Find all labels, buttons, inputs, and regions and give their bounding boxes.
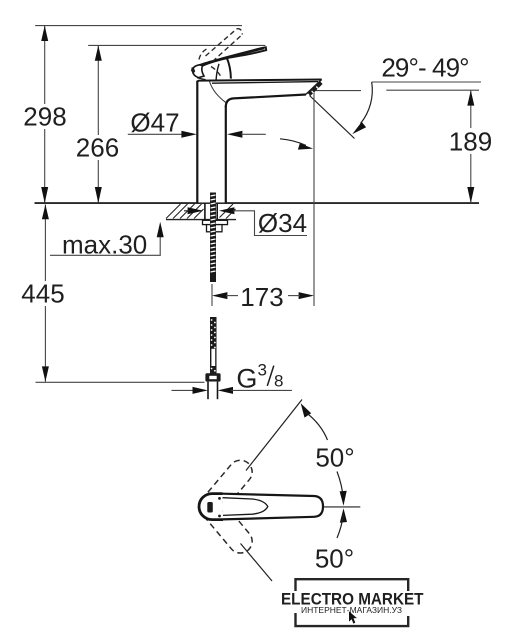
svg-text:173: 173 <box>240 282 283 312</box>
dimension 266 line <box>97 45 99 135</box>
svg-text:29°- 49°: 29°- 49° <box>381 53 468 83</box>
hose middle white slot <box>211 349 215 366</box>
svg-text:Ø47: Ø47 <box>130 107 179 137</box>
angle arc from label to stream line <box>361 82 373 124</box>
spout end face <box>306 80 322 95</box>
logo box bottom <box>296 613 409 626</box>
upper arc piece 2 with arrow at centerline <box>337 472 343 501</box>
threaded rod <box>210 193 216 283</box>
faucet body column <box>197 81 226 203</box>
dashed handle position upper <box>194 455 257 524</box>
189 top extension line <box>386 89 479 91</box>
locknut <box>207 225 223 232</box>
dashed handle position lower <box>194 489 257 558</box>
173 left extension line <box>211 284 213 306</box>
dimension 266 arrow up <box>95 45 102 60</box>
G3/8 dimension arrows <box>172 389 196 391</box>
svg-text:189: 189 <box>449 126 492 156</box>
dimension 189 line <box>470 90 472 128</box>
dimension 173 <box>212 292 227 299</box>
mouse cursor <box>349 611 357 623</box>
dimension 189 arrow up <box>467 90 474 105</box>
extension line top (298 to dashed handle tip) <box>35 25 242 27</box>
svg-text:Ø34: Ø34 <box>258 208 307 238</box>
svg-text:266: 266 <box>76 133 119 163</box>
max.30 riser <box>159 236 161 255</box>
shank tube edges <box>204 203 206 220</box>
aerator outlet reference line <box>315 90 361 92</box>
upper arc arrowhead at ray <box>301 403 312 417</box>
inner contour of lever <box>223 498 268 516</box>
angle arc arrowhead <box>352 122 366 134</box>
svg-text:3: 3 <box>258 360 267 379</box>
upper 50° ray <box>246 400 302 471</box>
counter / deck line <box>35 202 480 204</box>
spout underside <box>226 95 306 108</box>
spout second top edge <box>212 82 318 84</box>
handle lever (solid) <box>199 47 266 66</box>
handle neck <box>227 57 231 78</box>
lever inner top line <box>203 49 264 64</box>
Ø47 leader left with arrow <box>128 133 183 135</box>
dimension 298 arrow down <box>41 187 48 203</box>
Ø34 hole arrows <box>188 207 203 214</box>
upper arc piece 1 <box>306 413 328 441</box>
lower 50° ray <box>241 544 273 582</box>
handle top view: pivot cap <box>199 494 223 520</box>
vertical extension line at spout outlet x=314 <box>313 92 315 306</box>
washer under counter <box>203 220 228 224</box>
dimension 445 arrow down <box>42 366 49 381</box>
svg-text:ИНТЕРНЕТ-МАГАЗИН.УЗ: ИНТЕРНЕТ-МАГАЗИН.УЗ <box>301 606 402 615</box>
pivot dots <box>218 497 221 500</box>
dimension 189 arrow down <box>467 187 474 203</box>
hose connector nut <box>205 373 220 381</box>
extension line (266 to solid handle tip) <box>88 44 265 46</box>
29-49 underline <box>372 81 481 83</box>
dimension 298 arrow up <box>41 26 48 41</box>
counter block bottom line <box>166 219 236 221</box>
small curved arrow under spout <box>280 139 306 146</box>
max.30 underline <box>50 254 161 256</box>
svg-text:50°: 50° <box>315 442 354 472</box>
connection pipe <box>208 382 218 400</box>
svg-text:445: 445 <box>21 278 64 308</box>
dimension 298 line <box>44 26 46 104</box>
max.30 arrow up <box>157 222 164 237</box>
svg-text:298: 298 <box>23 102 66 132</box>
handle pivot boss <box>193 65 204 78</box>
lower arc arrow at centerline <box>340 508 347 523</box>
water stream line <box>310 96 355 139</box>
logo box top <box>296 579 409 591</box>
Ø47 right arrow with tail <box>227 131 242 138</box>
handle centerline <box>255 506 360 508</box>
dimension 445 arrow up <box>42 205 49 220</box>
svg-text:G: G <box>236 363 257 393</box>
spout top outline <box>197 80 321 82</box>
pivot slot <box>207 502 213 513</box>
dashed handle (raised position) <box>199 29 242 76</box>
bottom reference line at hose end <box>36 381 205 383</box>
handle top view: lever <box>223 494 324 520</box>
svg-text:50°: 50° <box>315 544 354 574</box>
svg-text:8: 8 <box>274 372 283 391</box>
dimension 266 arrow down <box>95 187 102 203</box>
aerator (dark slanted bar) <box>309 82 321 94</box>
inner shoulder curve <box>210 82 226 103</box>
dimension 445 line <box>44 205 46 282</box>
Ø34 leader <box>233 211 307 236</box>
counter hatch block left <box>166 204 204 219</box>
flexible hose (braided) <box>210 317 217 376</box>
counter hatch block right <box>220 204 236 219</box>
lower arc piece <box>337 514 343 538</box>
